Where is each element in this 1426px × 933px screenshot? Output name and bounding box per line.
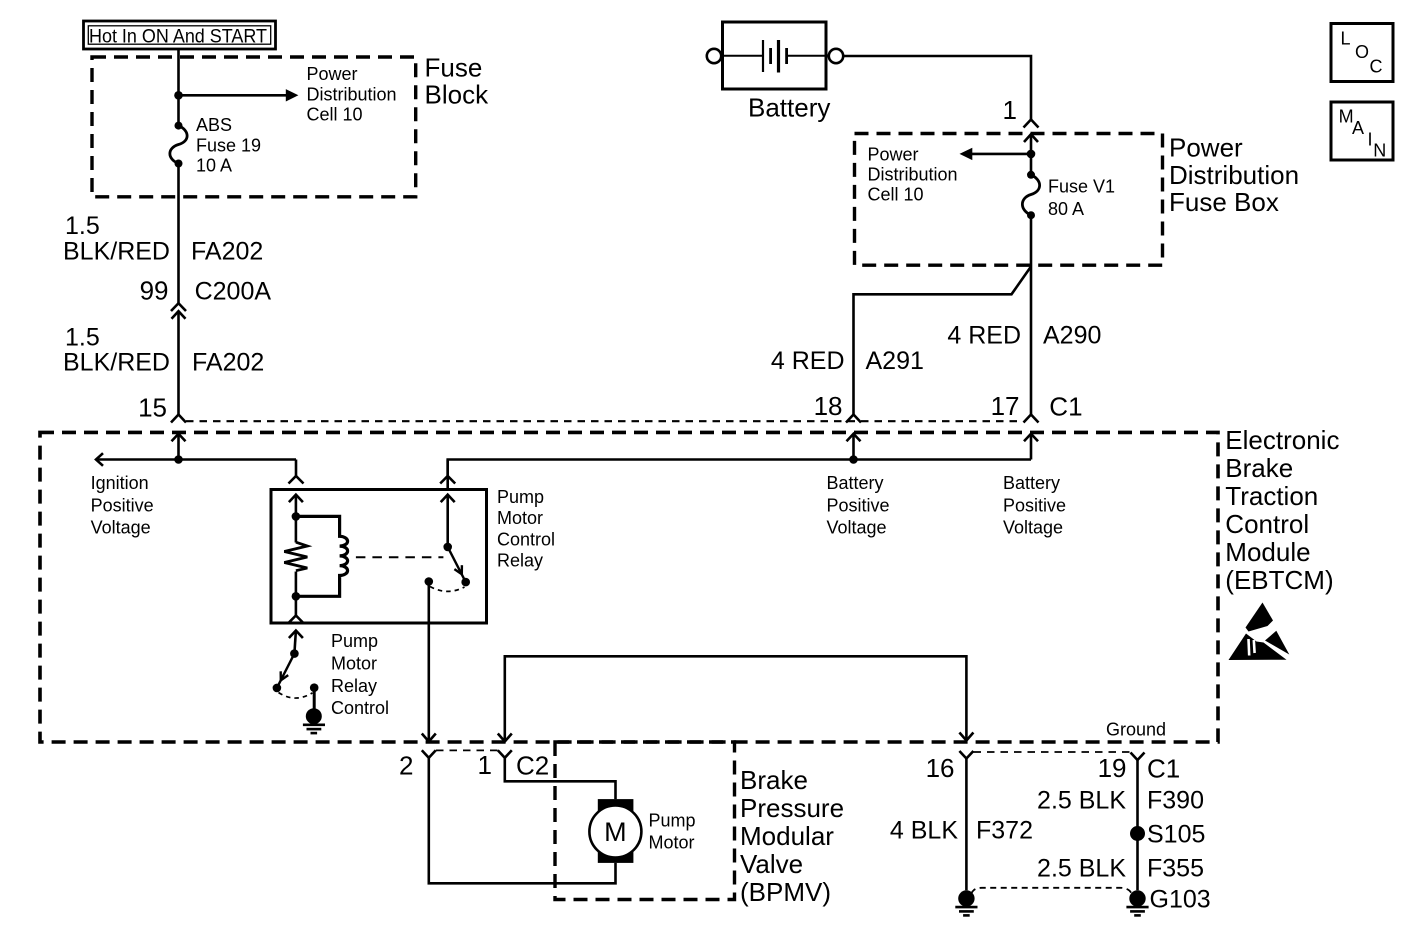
svg-text:(EBTCM): (EBTCM)	[1225, 565, 1333, 595]
wire to internal ground	[313, 688, 316, 709]
svg-text:Positive: Positive	[91, 496, 154, 516]
svg-text:Motor: Motor	[331, 653, 377, 673]
pin 18 arrow inside EBTCM	[847, 434, 861, 460]
label Ignition Positive Voltage	[91, 473, 154, 538]
svg-text:Pump: Pump	[331, 631, 378, 651]
svg-text:BLK/RED: BLK/RED	[63, 237, 170, 265]
label 1.5 BLK/RED FA202 (lower)	[63, 323, 264, 376]
wire pin 19 to G103	[1136, 760, 1139, 890]
svg-text:I: I	[1368, 130, 1373, 150]
node coil top	[292, 512, 301, 521]
control switch arm with arrow	[277, 654, 295, 688]
power distribution fuse box	[855, 134, 1163, 266]
svg-text:Pump: Pump	[649, 811, 696, 831]
svg-text:16: 16	[926, 753, 955, 783]
svg-text:F355: F355	[1147, 855, 1204, 883]
flag Hot In ON And START	[84, 21, 276, 49]
svg-text:C1: C1	[1049, 392, 1082, 422]
svg-text:FA202: FA202	[191, 237, 263, 265]
wire arrow to power distribution cell 10	[179, 89, 299, 101]
svg-text:Relay: Relay	[331, 676, 377, 696]
connector line C1/C2 top (fine dashed)	[186, 420, 1023, 422]
svg-text:Hot In ON And START: Hot In ON And START	[89, 27, 267, 48]
relay pin chevron (coil feed)	[289, 476, 304, 484]
pin 15 arrow inside EBTCM	[172, 434, 186, 460]
wire C200A to pin 15	[177, 311, 180, 414]
node junction above fuse V1	[1027, 150, 1036, 159]
relay coil	[296, 516, 348, 596]
svg-text:(BPMV): (BPMV)	[740, 877, 831, 907]
svg-text:Power: Power	[307, 64, 358, 84]
splice S105	[1130, 826, 1145, 841]
svg-text:F390: F390	[1147, 787, 1204, 815]
svg-text:M: M	[604, 817, 627, 847]
internal ground symbol	[303, 708, 325, 733]
node junction at fuse block feed	[174, 91, 183, 100]
svg-text:ABS: ABS	[196, 115, 232, 135]
pin 1 arrow down	[498, 734, 512, 742]
svg-text:Brake: Brake	[1225, 453, 1293, 483]
svg-text:99: 99	[140, 276, 169, 306]
ground equalizer link (fine dashed)	[972, 888, 1132, 894]
svg-text:C200A: C200A	[195, 278, 272, 306]
label 4 BLK F372	[890, 817, 1033, 845]
svg-text:Block: Block	[425, 80, 490, 110]
svg-text:F372: F372	[976, 817, 1033, 845]
MAIN legend box	[1331, 102, 1393, 160]
svg-text:A291: A291	[866, 347, 924, 375]
svg-text:2.5 BLK: 2.5 BLK	[1037, 855, 1126, 883]
svg-text:Pressure: Pressure	[740, 793, 844, 823]
svg-text:Control: Control	[1225, 509, 1309, 539]
svg-text:Positive: Positive	[1003, 496, 1066, 516]
svg-text:Voltage: Voltage	[1003, 518, 1063, 538]
label ABS Fuse 19 10 A	[196, 115, 261, 176]
svg-text:Motor: Motor	[649, 833, 695, 853]
svg-text:C2: C2	[516, 751, 549, 781]
svg-text:G103: G103	[1150, 885, 1211, 913]
svg-text:Battery: Battery	[1003, 473, 1060, 493]
relay switch feed arrow	[441, 495, 455, 547]
node junction battery bus	[849, 455, 858, 464]
label 99 C200A	[140, 276, 272, 306]
pin 16 chevron	[959, 751, 973, 759]
svg-text:Control: Control	[331, 698, 389, 718]
control switch contact node right	[310, 683, 319, 692]
label Battery Positive Voltage (pin 17)	[1003, 473, 1066, 538]
internal bus pin1 to pin16	[505, 656, 967, 740]
node junction ignition bus	[174, 455, 183, 464]
svg-text:15: 15	[138, 393, 167, 423]
dashed arc between contacts	[430, 587, 465, 592]
svg-text:C1: C1	[1147, 754, 1180, 784]
svg-text:Distribution: Distribution	[307, 84, 397, 104]
svg-text:Pump: Pump	[497, 487, 544, 507]
relay coil ground pin chevron at box bottom	[288, 616, 303, 624]
wire coil bottom to box bottom	[295, 596, 298, 615]
wire flag to fuse F19	[177, 49, 180, 125]
svg-text:19: 19	[1098, 753, 1127, 783]
svg-text:Motor: Motor	[497, 508, 543, 528]
svg-text:2.5 BLK: 2.5 BLK	[1037, 787, 1126, 815]
EBTCM module box	[40, 432, 1218, 742]
label Power Distribution Cell 10 (fuse block)	[307, 64, 397, 124]
label Fuse V1 80 A	[1048, 177, 1115, 220]
svg-text:Distribution: Distribution	[868, 165, 958, 185]
battery B1	[707, 22, 843, 89]
pin 15 chevron	[171, 415, 186, 423]
svg-text:L: L	[1341, 28, 1351, 48]
fuse F19 (ABS 10A)	[170, 122, 187, 168]
label 4 RED A290	[947, 322, 1101, 350]
pin 18 chevron	[846, 415, 861, 423]
control switch common node	[290, 649, 299, 658]
dashed actuator link coil to switch	[356, 556, 444, 558]
svg-text:Distribution: Distribution	[1169, 160, 1299, 190]
ESD warning symbol	[1229, 603, 1290, 661]
pin 2 chevron	[422, 750, 436, 758]
label Fuse Block	[425, 52, 490, 109]
svg-text:10 A: 10 A	[196, 156, 232, 176]
svg-text:Fuse 19: Fuse 19	[196, 135, 261, 155]
connector line C2 (fine dashed)	[436, 749, 498, 751]
svg-text:Cell 10: Cell 10	[307, 105, 363, 125]
fuse block box	[92, 57, 416, 197]
relay switch contact node (NC side)	[425, 577, 434, 586]
svg-text:Ignition: Ignition	[91, 473, 149, 493]
fuse V1 80A	[1022, 171, 1039, 219]
svg-text:Valve: Valve	[740, 849, 803, 879]
relay switch chevron above box	[440, 476, 455, 484]
relay coil pin arrow	[289, 495, 303, 517]
svg-text:80 A: 80 A	[1048, 199, 1084, 219]
label Pump Motor (bpmv)	[649, 811, 696, 853]
svg-text:Fuse Box: Fuse Box	[1169, 187, 1279, 217]
wire corner into relay switch	[446, 460, 449, 477]
connector C200A inline symbol	[171, 303, 186, 319]
svg-text:4 BLK: 4 BLK	[890, 817, 958, 845]
svg-text:Battery: Battery	[748, 93, 830, 123]
wire fuse V1 to pin 17 (A290)	[1030, 215, 1033, 414]
svg-text:Modular: Modular	[740, 821, 834, 851]
pump motor M1	[589, 799, 641, 863]
connector line C1 bottom (fine dashed)	[974, 751, 1131, 753]
arrow below relay (relay control)	[289, 631, 303, 654]
svg-text:Voltage: Voltage	[91, 518, 151, 538]
svg-text:1.5: 1.5	[65, 323, 100, 351]
wire branch A291 to pin 18	[854, 267, 1032, 415]
label 2.5 BLK F355	[1037, 855, 1204, 883]
pin 16 arrow down	[959, 733, 973, 741]
svg-text:1.5: 1.5	[65, 212, 100, 240]
svg-text:Ground: Ground	[1106, 720, 1166, 740]
dashed arc control switch	[279, 693, 313, 699]
svg-text:Relay: Relay	[497, 551, 543, 571]
svg-text:Battery: Battery	[827, 473, 884, 493]
control switch contact node left	[273, 684, 282, 693]
ignition bus wire with left arrow	[96, 453, 296, 476]
relay switch contact node (NO)	[461, 578, 470, 587]
pin 1 chevron	[1024, 120, 1039, 128]
LOC legend box	[1331, 24, 1393, 82]
wire motor to pin 2 loop	[429, 758, 616, 884]
svg-text:Power: Power	[868, 144, 919, 164]
svg-text:Fuse V1: Fuse V1	[1048, 177, 1115, 197]
svg-text:Voltage: Voltage	[827, 518, 887, 538]
svg-text:O: O	[1355, 42, 1369, 62]
svg-text:A290: A290	[1043, 322, 1101, 350]
label Power Distribution Cell 10 (pdfb)	[868, 144, 958, 204]
label 4 RED A291	[771, 347, 924, 375]
pin 1 arrow inside fuse box	[1024, 134, 1038, 175]
BPMV box	[555, 742, 735, 900]
svg-text:Brake: Brake	[740, 765, 808, 795]
svg-text:1: 1	[478, 750, 492, 780]
pin 19 chevron	[1131, 753, 1145, 761]
svg-text:Fuse: Fuse	[425, 52, 483, 82]
pin 17 arrow inside EBTCM	[1024, 434, 1038, 460]
relay K1 box	[271, 490, 487, 624]
svg-text:BLK/RED: BLK/RED	[63, 348, 170, 376]
label Brake Pressure Modular Valve (BPMV)	[740, 765, 844, 907]
svg-text:Power: Power	[1169, 132, 1243, 162]
wire relay switch to pin 2	[427, 582, 430, 741]
label Battery Positive Voltage (pin 18)	[827, 473, 890, 538]
ground symbol G103	[1126, 890, 1148, 915]
svg-text:4 RED: 4 RED	[947, 322, 1021, 350]
pin 2 arrow down	[422, 734, 436, 742]
relay switch arm with arrow	[448, 547, 466, 582]
svg-text:Positive: Positive	[827, 496, 890, 516]
wire pin 1 to motor	[505, 758, 616, 799]
label Power Distribution Fuse Box	[1169, 132, 1299, 217]
svg-text:Control: Control	[497, 529, 555, 549]
label Electronic Brake Traction Control Module (EBTCM)	[1225, 425, 1339, 595]
svg-text:18: 18	[814, 391, 843, 421]
ground symbol (F372)	[955, 890, 977, 915]
label 1.5 BLK/RED FA202 (upper)	[63, 212, 263, 265]
svg-text:4 RED: 4 RED	[771, 347, 845, 375]
svg-text:A: A	[1352, 118, 1364, 138]
wire fuse F19 to connector C200A	[177, 164, 180, 304]
relay switch common node	[443, 543, 452, 552]
label Pump Motor Control Relay	[497, 487, 555, 571]
label Pump Motor Relay Control	[331, 631, 389, 718]
svg-text:17: 17	[991, 391, 1020, 421]
pin 17 chevron	[1024, 415, 1039, 423]
svg-text:S105: S105	[1147, 821, 1205, 849]
battery bus wire (pins 18,17 to relay switch)	[448, 460, 1031, 490]
wire pin 16 to ground G	[965, 759, 968, 891]
node coil bottom	[292, 592, 301, 601]
svg-text:N: N	[1373, 140, 1386, 160]
svg-text:1: 1	[1003, 95, 1017, 125]
svg-text:2: 2	[399, 751, 413, 781]
svg-text:Traction: Traction	[1225, 481, 1318, 511]
pin 1 chevron	[498, 750, 512, 758]
svg-text:Cell 10: Cell 10	[868, 185, 924, 205]
svg-text:Electronic: Electronic	[1225, 425, 1339, 455]
svg-text:C: C	[1370, 56, 1383, 76]
wire battery to fuse box pin 1	[843, 56, 1031, 120]
wire arrow to power distribution cell 10 (fuse box)	[960, 148, 1032, 160]
label 2.5 BLK F390	[1037, 787, 1204, 815]
resistor (relay)	[284, 516, 307, 596]
svg-text:FA202: FA202	[192, 348, 264, 376]
svg-text:Module: Module	[1225, 537, 1310, 567]
